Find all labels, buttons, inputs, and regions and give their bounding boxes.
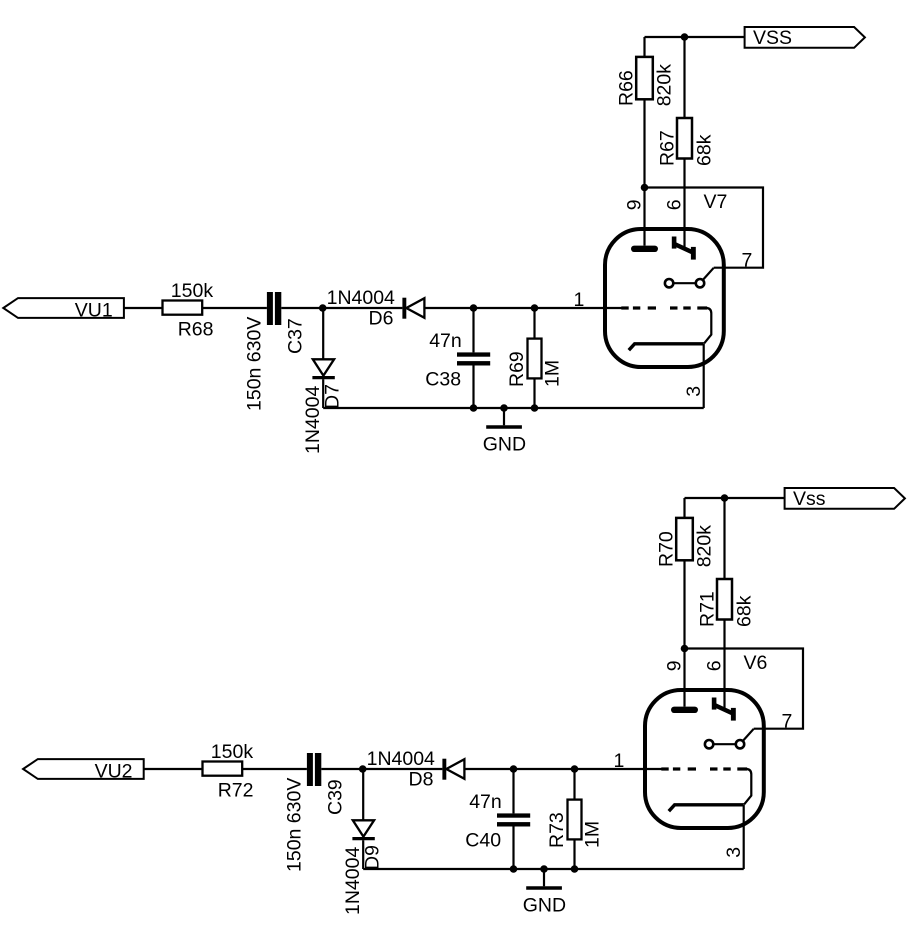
junction node R69 top (531, 304, 539, 312)
wire rail to R71 (723, 498, 725, 579)
svg-text:150n 630V: 150n 630V (243, 317, 265, 411)
wire pin 7 loop (685, 649, 804, 729)
wire to D9 (362, 769, 364, 820)
wire D7 to ground rail (322, 379, 324, 408)
svg-text:R70: R70 (655, 531, 677, 567)
wire D8 to tube grid (464, 768, 662, 770)
svg-text:1: 1 (614, 750, 625, 772)
svg-text:68k: 68k (733, 595, 755, 627)
cathode (629, 344, 704, 350)
svg-text:7: 7 (742, 250, 753, 272)
svg-text:C37: C37 (284, 318, 306, 354)
svg-text:V7: V7 (704, 191, 728, 213)
connector VU2 (23, 759, 144, 779)
tube V7 envelope (605, 229, 724, 367)
svg-text:D8: D8 (409, 769, 434, 791)
resistor R66 (636, 57, 653, 99)
svg-text:R72: R72 (218, 779, 254, 801)
connector VU1 (3, 298, 124, 318)
wire to D7 (322, 308, 324, 359)
junction ground rail / C (510, 865, 518, 873)
deflection electrode pin 6 (672, 237, 677, 249)
svg-text:D7: D7 (322, 384, 344, 409)
svg-text:R69: R69 (506, 351, 528, 387)
svg-text:1N4004: 1N4004 (342, 847, 364, 915)
svg-text:C38: C38 (425, 369, 461, 391)
svg-text:7: 7 (782, 711, 793, 733)
wire R71 to pin 6 (723, 620, 725, 710)
svg-text:9: 9 (624, 199, 646, 210)
wire R70 to pin 9 node (683, 560, 685, 648)
svg-text:GND: GND (523, 895, 566, 917)
svg-text:820k: 820k (693, 525, 715, 568)
svg-text:C39: C39 (324, 779, 346, 815)
wire C40 to ground rail (512, 827, 514, 870)
svg-text:9: 9 (664, 660, 686, 671)
resistor R73 (568, 800, 582, 840)
junction ground rail / GND (500, 404, 508, 412)
svg-text:150k: 150k (171, 280, 214, 302)
junction VSS node (681, 33, 689, 41)
wire R67 to pin 6 (683, 159, 685, 249)
wire C38 to ground rail (472, 366, 474, 409)
ground (543, 869, 545, 886)
svg-text:R71: R71 (696, 591, 718, 627)
svg-text:820k: 820k (653, 64, 675, 107)
wire R73 to ground rail (573, 839, 575, 869)
svg-text:6: 6 (703, 660, 725, 671)
svg-text:1M: 1M (542, 360, 564, 387)
svg-text:Vss: Vss (793, 488, 826, 510)
svg-text:R66: R66 (615, 70, 637, 106)
junction node filter (470, 304, 478, 312)
svg-text:1N4004: 1N4004 (327, 287, 395, 309)
wire VSS rail (645, 36, 745, 38)
cathode (669, 805, 744, 811)
capacitor C40 (497, 813, 530, 817)
wire rail to R70 (683, 498, 685, 518)
capacitor C38 (457, 352, 490, 356)
resistor R70 (676, 518, 693, 560)
svg-text:3: 3 (723, 847, 745, 858)
svg-text:VU2: VU2 (95, 760, 133, 782)
wire R66 to pin 9 node (643, 99, 645, 187)
wire rail to R66 (643, 37, 645, 57)
connector Vss (785, 488, 905, 509)
wire ground rail (323, 407, 704, 409)
svg-text:R68: R68 (178, 318, 214, 340)
anode pin 7 terminals (705, 740, 713, 748)
svg-text:47n: 47n (469, 791, 502, 813)
wire ground rail (363, 868, 744, 870)
wire anode to pin 7 (703, 268, 714, 280)
junction Vss node (721, 494, 729, 502)
svg-text:R67: R67 (656, 130, 678, 166)
wire anode to pin 7 (743, 729, 754, 741)
diode D6 (402, 298, 406, 319)
wire D6 to tube grid (424, 307, 622, 309)
wire node to R73 (573, 769, 575, 800)
wire pin 9 lead (683, 649, 685, 707)
svg-text:150n 630V: 150n 630V (283, 778, 305, 872)
wire pin 7 loop (645, 188, 764, 268)
connector VSS (745, 27, 865, 48)
capacitor C37 (267, 292, 273, 325)
wire R69 to ground rail (533, 378, 535, 408)
resistor R69 (528, 339, 542, 379)
ground (503, 408, 505, 425)
wire rail to R67 (683, 37, 685, 118)
junction ground rail / C (470, 404, 478, 412)
wire node to C40 (512, 769, 514, 813)
svg-text:1N4004: 1N4004 (367, 748, 435, 770)
resistor R71 (717, 579, 732, 620)
svg-text:47n: 47n (429, 330, 462, 352)
wire cathode to pin 3 (743, 805, 745, 869)
wire cathode to pin 3 (703, 344, 705, 408)
svg-text:D9: D9 (362, 845, 384, 870)
junction ground rail / GND (540, 865, 548, 873)
junction node D7 tap (319, 304, 327, 312)
svg-text:3: 3 (683, 386, 705, 397)
svg-text:R73: R73 (546, 812, 568, 848)
resistor R68 (163, 301, 203, 315)
junction pin 9 node (641, 184, 649, 192)
wire R72 to C39 (242, 768, 307, 770)
svg-text:D6: D6 (369, 308, 394, 330)
junction node filter (510, 765, 518, 773)
svg-text:1N4004: 1N4004 (302, 386, 324, 454)
svg-text:VSS: VSS (753, 27, 792, 49)
target electrode pin 9 (671, 707, 698, 713)
svg-text:VU1: VU1 (75, 299, 113, 321)
anode pin 7 terminals (665, 279, 673, 287)
wire R68 to C37 (202, 307, 267, 309)
wire Vss rail (685, 497, 785, 499)
resistor R72 (203, 762, 243, 776)
wire VU2 to R72 (144, 768, 203, 770)
svg-text:C40: C40 (465, 830, 501, 852)
svg-text:GND: GND (483, 434, 526, 456)
diode D9 (353, 820, 374, 836)
tube V6 envelope (645, 690, 764, 828)
grid pin 1 (621, 306, 628, 309)
junction ground rail / R69 (531, 404, 539, 412)
svg-text:V6: V6 (744, 652, 768, 674)
resistor R67 (677, 118, 692, 159)
deflection electrode pin 6 (712, 698, 717, 710)
grid pin 1 (661, 767, 668, 770)
svg-text:1: 1 (574, 289, 585, 311)
junction node D9 tap (359, 765, 367, 773)
wire node to R69 (533, 308, 535, 339)
junction ground rail / R73 (571, 865, 579, 873)
wire VU1 to R68 (124, 307, 163, 309)
capacitor C39 (307, 753, 313, 786)
svg-text:1M: 1M (582, 821, 604, 848)
wire C37 to D6 (281, 307, 402, 309)
wire node to C38 (472, 308, 474, 352)
junction node R73 top (571, 765, 579, 773)
svg-text:68k: 68k (693, 134, 715, 166)
svg-text:150k: 150k (211, 741, 254, 763)
wire pin 9 lead (643, 188, 645, 246)
diode D7 (313, 359, 334, 375)
junction pin 9 node (681, 645, 689, 653)
svg-text:6: 6 (663, 199, 685, 210)
wire C39 to D8 (321, 768, 442, 770)
wire D9 to ground rail (362, 840, 364, 869)
target electrode pin 9 (631, 246, 658, 252)
diode D8 (442, 759, 446, 780)
